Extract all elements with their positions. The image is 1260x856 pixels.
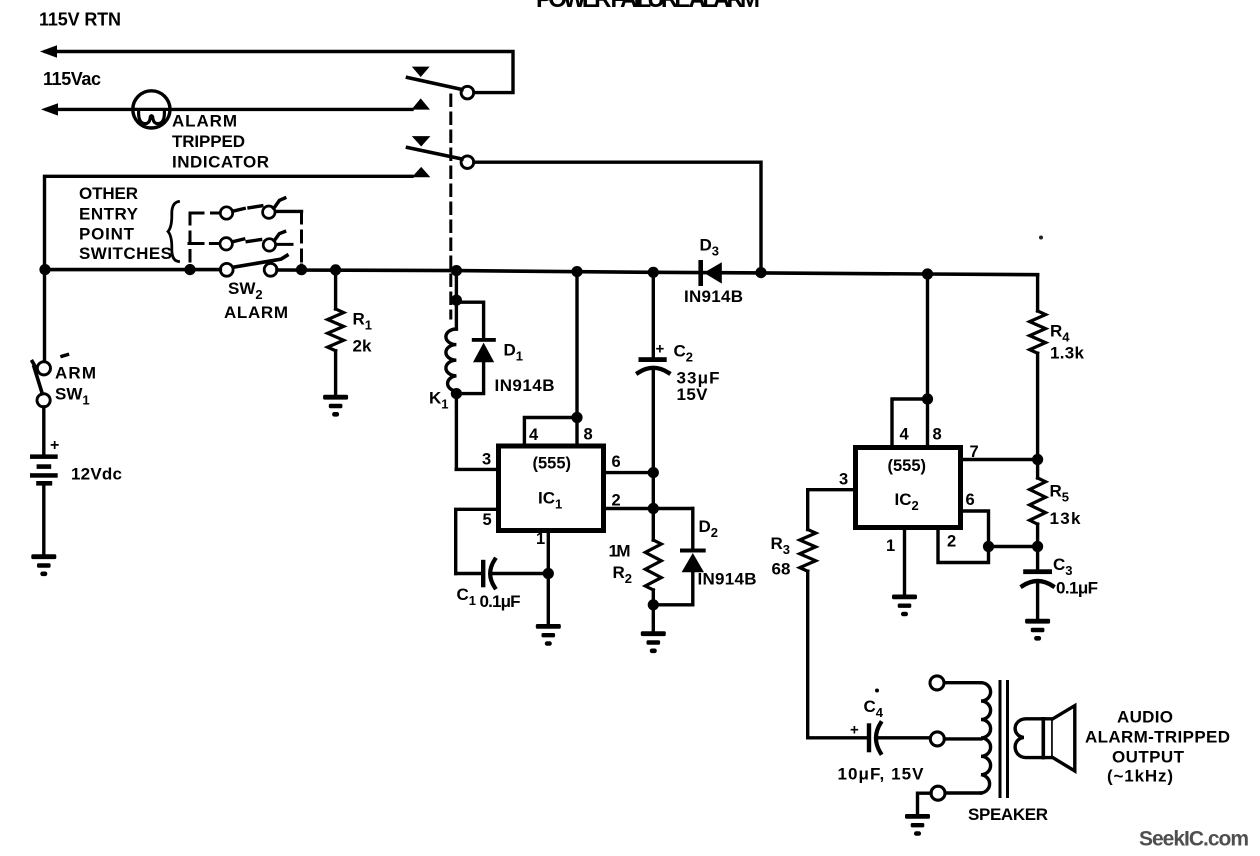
svg-text:ALARM-TRIPPED: ALARM-TRIPPED (1085, 728, 1230, 747)
capacitor C1 curved plate (490, 560, 495, 588)
wire: IC2 pin7 to R4-R5 (961, 458, 1038, 461)
ground below R1 (323, 395, 348, 417)
diode D3 triangle (704, 262, 722, 283)
switch SW2 right contact (264, 263, 277, 276)
wire: R1 to ground (334, 351, 337, 395)
wire: R2 to ground (652, 590, 655, 631)
relay contact K1-A pivot (461, 86, 474, 99)
transformer T1 bottom terminal (931, 786, 945, 800)
wire: K1 bottom to IC1 pin3 (456, 394, 498, 470)
wire: SW1 to battery (42, 407, 45, 455)
arrowhead 115Vac (41, 103, 58, 115)
node: bus at K1 (451, 265, 462, 276)
svg-text:0.1μF: 0.1μF (480, 592, 521, 611)
lamp DS1 alarm tripped indicator (133, 91, 170, 128)
wire: D1 bottom loop (456, 362, 483, 394)
svg-text:1.3k: 1.3k (1050, 343, 1085, 362)
relay contact K1-B pivot (461, 156, 474, 169)
wire: bottom terminal to winding (945, 791, 981, 794)
entry switch ES2 blade (232, 239, 243, 242)
svg-text:IN914B: IN914B (684, 287, 743, 306)
node: bus at entry frame (184, 264, 195, 275)
entry switch ES2 left contact (220, 238, 232, 250)
wire: pin7 node to R5 (1036, 460, 1039, 479)
node: bus at entry frame right (296, 264, 307, 275)
wire: C4 to transformer center tap (879, 736, 930, 739)
diode D1 triangle (473, 343, 494, 363)
svg-text:4: 4 (529, 426, 539, 444)
svg-text:OUTPUT: OUTPUT (1112, 747, 1185, 766)
capacitor C3 curved plate (1022, 581, 1052, 586)
wire: battery to ground (42, 486, 45, 555)
svg-text:(~1kHz): (~1kHz) (1107, 766, 1173, 785)
battery BT1 plate long (30, 473, 58, 478)
diode D1 cathode bar (472, 338, 496, 342)
node: R4-R5-pin7 junction (1032, 454, 1043, 465)
svg-text:ARM: ARM (55, 363, 96, 382)
speck above R4 (1039, 236, 1043, 240)
op IC1 555 timer box (499, 446, 604, 531)
wire: IC2 pin8 from bus (926, 274, 929, 448)
wire: C2 branch (652, 272, 655, 357)
wire: IC2 pin6 (961, 511, 989, 547)
svg-text:2k: 2k (353, 336, 372, 355)
svg-text:IN914B: IN914B (495, 376, 555, 395)
wire: R1 branch (334, 270, 337, 309)
wire: center terminal to winding (945, 737, 982, 740)
svg-text:SPEAKER: SPEAKER (968, 805, 1048, 824)
relay contact K1-B arm (408, 148, 463, 160)
node: pin6 junction at C2 line (648, 467, 659, 478)
node: bus at R1 (330, 264, 341, 275)
ground below IC1 pin1 (536, 624, 561, 646)
capacitor C3 top plate (1023, 569, 1052, 574)
svg-text:SeekIC.com: SeekIC.com (1139, 827, 1249, 850)
resistor R3 68 (800, 530, 816, 572)
entry switch ES1 right blade hook (274, 198, 285, 208)
wire: C2 to R2 (652, 369, 655, 540)
wire: IC2 pin4 jumper (892, 399, 928, 448)
entry switch ES2 blade dash (247, 240, 260, 242)
speaker LS1 horn (1053, 706, 1075, 771)
wire: C3 to ground (1036, 583, 1039, 619)
wire: R4 to pin7 node (1036, 353, 1039, 459)
svg-text:12Vdc: 12Vdc (71, 464, 122, 483)
capacitor C4 left plate (867, 723, 871, 752)
svg-text:INDICATOR: INDICATOR (172, 152, 269, 171)
transformer T1 center terminal (930, 732, 944, 746)
wire: bus corner to R4 (1036, 275, 1039, 311)
entry switch ES1 dashed frame left (190, 213, 220, 270)
arrowhead 115V RTN (40, 45, 57, 57)
wire: IC2 pin2 loop (938, 528, 989, 563)
wire: IC1 pin4 jumper (524, 418, 577, 447)
node: R2-D2 bottom junction (648, 599, 659, 610)
switch SW2 left contact (220, 263, 233, 276)
svg-text:AUDIO: AUDIO (1117, 708, 1173, 727)
node: pin2 junction at C2 line (648, 503, 659, 514)
svg-text:OTHER: OTHER (79, 184, 138, 203)
svg-text:SWITCHES: SWITCHES (79, 244, 172, 263)
svg-text:15V: 15V (677, 385, 709, 404)
ground below speaker tap (905, 814, 930, 836)
svg-text:IN914B: IN914B (698, 569, 757, 588)
ground below battery (31, 554, 56, 576)
wire: pin2-pin6 to R5-C3 (989, 545, 1038, 548)
wire: left rail to NO contact (45, 176, 413, 361)
node: K1 top (451, 295, 462, 306)
wire: IC1 pin5 (456, 509, 499, 573)
node: pin2-pin6 junction (983, 541, 994, 552)
resistor R2 1M (645, 540, 661, 590)
node: bus at relay contact feed (755, 267, 766, 278)
node: bus at C2 (648, 267, 659, 278)
wire: 115Vac line (47, 108, 412, 111)
wire: contact K1-B output to bus (474, 162, 761, 272)
entry switch ES1 right wire (276, 210, 302, 213)
resistor R5 13k (1030, 478, 1046, 524)
wire: IC1 pin8 from bus (575, 272, 578, 446)
svg-text:ENTRY: ENTRY (79, 205, 139, 224)
entry switch ES2 right dash (277, 243, 292, 246)
diode D2 cathode bar (680, 549, 706, 553)
wire: top terminal to winding (944, 681, 981, 684)
ground below IC2 pin1 (892, 595, 917, 617)
svg-text:(555): (555) (888, 457, 927, 475)
capacitor C2 top plate (639, 357, 667, 362)
entry switch ES2 dashed frame left tick (189, 242, 219, 245)
ground below C3 (1025, 619, 1050, 641)
wire: C1 right lead to pin1 line (494, 572, 549, 575)
svg-text:2: 2 (947, 532, 956, 550)
switch SW1 blade (32, 362, 42, 394)
svg-text:ALARM: ALARM (224, 303, 288, 322)
wire: D2 bottom loop (653, 572, 693, 605)
node: pin4-pin8 junction (571, 412, 582, 423)
capacitor C2 curved plate (638, 368, 669, 373)
wire: K1 top to coil (455, 300, 458, 329)
svg-text:2: 2 (612, 491, 621, 509)
wire: R5 to C3 node (1036, 524, 1039, 569)
wire: D1 top branch (456, 302, 483, 338)
diode D3 cathode bar (698, 260, 703, 286)
speaker LS1 body with coil lobes (1015, 719, 1053, 758)
svg-text:+: + (656, 341, 665, 358)
node: R5-C3 junction (1032, 541, 1043, 552)
relay contact K1-B NC triangle (412, 136, 431, 146)
svg-text:3: 3 (839, 470, 848, 488)
svg-text:115V RTN: 115V RTN (39, 10, 121, 30)
wire: IC2 pin1 to ground (903, 528, 906, 595)
relay contact K1-B NO triangle (412, 167, 431, 177)
switch SW1 top contact (37, 362, 50, 375)
entry switch ES1 right contact (263, 206, 275, 218)
capacitor C4 tick (875, 689, 879, 693)
wire: R3 to C4 (808, 571, 867, 738)
svg-text:1: 1 (886, 537, 895, 555)
svg-text:POWER FAILURE ALARM: POWER FAILURE ALARM (536, 0, 761, 13)
battery BT1 plate short bottom (36, 481, 52, 486)
relay contact K1-A NC contact triangle (412, 67, 430, 77)
svg-text:0.1μF: 0.1μF (1056, 578, 1098, 597)
svg-text:6: 6 (966, 491, 975, 509)
svg-text:1: 1 (536, 530, 545, 548)
op IC2 555 timer box (856, 448, 961, 528)
capacitor C1 left plate (481, 560, 485, 588)
node: bus at IC2 pin8 (922, 268, 933, 279)
node: bus left corner (39, 264, 50, 275)
wire: IC1 pin6 (604, 471, 654, 474)
entry switch ES2 right blade hook (274, 232, 284, 241)
svg-text:8: 8 (933, 425, 942, 443)
relay actuator dashed line (449, 95, 452, 318)
entry switch ES1 left contact (220, 207, 232, 219)
entry switch ES1 blade dash (249, 206, 262, 208)
tick mark near ARM (62, 355, 68, 357)
svg-text:4: 4 (900, 425, 910, 443)
switch SW2 blade (234, 255, 287, 267)
capacitor C4 curved plate (876, 723, 881, 753)
transformer T1 core (1000, 682, 1008, 797)
transformer T1 top terminal (930, 676, 944, 690)
brace for entry switches (168, 202, 179, 262)
svg-text:+: + (50, 437, 59, 454)
resistor R1 2k (328, 309, 344, 351)
battery BT1 plate short (37, 464, 52, 469)
svg-text:8: 8 (584, 425, 593, 443)
svg-text:13k: 13k (1050, 509, 1082, 528)
wire: IC2 pin3 to R3 (808, 490, 856, 530)
node: IC2 pin4-pin8 junction (922, 393, 933, 404)
svg-text:7: 7 (970, 443, 979, 461)
switch SW1 bottom contact (37, 394, 50, 407)
node: bus at IC1 pin8 (571, 266, 582, 277)
node: C1-pin1 junction (543, 568, 554, 579)
wire: 115V RTN line (46, 52, 513, 93)
wire: D2 branch from pin2 (691, 509, 694, 550)
wire: bottom terminal to ground (918, 793, 932, 814)
entry switch ES1/ES2 dashed frame right (300, 212, 303, 270)
entry switch ES1 blade (233, 209, 244, 212)
wire: C1 left lead (456, 572, 483, 575)
node: K1 bottom (451, 388, 462, 399)
battery BT1 plate long top (30, 454, 58, 459)
svg-text:+: + (850, 722, 859, 739)
svg-text:1M: 1M (609, 541, 631, 560)
speaker LS1 body divider (1042, 719, 1046, 758)
relay contact K1-A NO contact triangle (115Vac) (411, 98, 430, 109)
entry switch ES2 right contact (263, 239, 275, 251)
wire: main 12V bus (45, 270, 1038, 275)
resistor R4 1.3k (1030, 311, 1046, 353)
relay contact K1-A arm (408, 78, 463, 90)
relay coil K1 (446, 329, 457, 391)
svg-text:POINT: POINT (79, 225, 135, 244)
wire: K1 branch (455, 271, 458, 301)
svg-text:115Vac: 115Vac (43, 69, 101, 89)
transformer T1 primary winding (981, 683, 991, 793)
svg-text:(555): (555) (533, 455, 572, 473)
svg-text:TRIPPED: TRIPPED (172, 132, 245, 151)
diode D2 triangle (682, 553, 704, 572)
svg-text:6: 6 (612, 453, 621, 471)
wire: IC1 pin2 (604, 507, 693, 510)
wire: IC1 pin1 to ground (547, 531, 550, 625)
svg-text:ALARM: ALARM (172, 112, 237, 131)
ground below R2 (641, 631, 666, 653)
svg-text:5: 5 (483, 511, 492, 529)
svg-text:68: 68 (772, 559, 791, 578)
svg-text:3: 3 (482, 450, 491, 468)
